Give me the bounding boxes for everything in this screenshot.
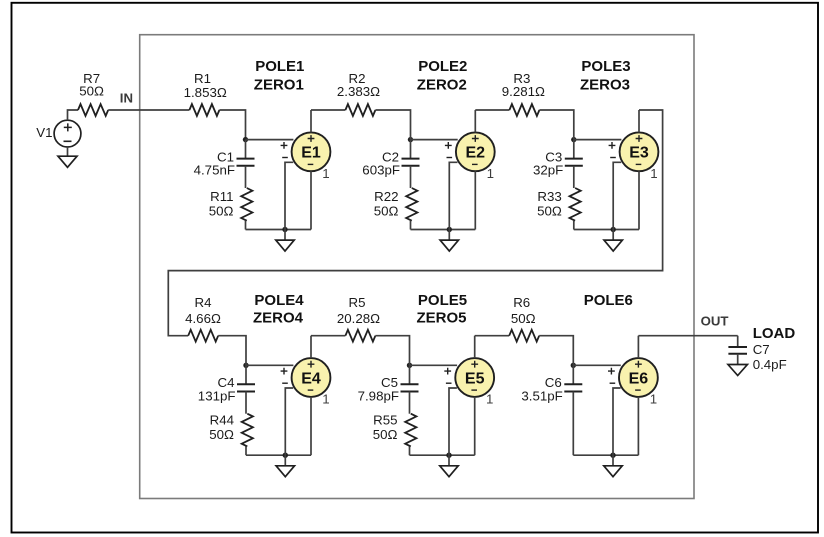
svg-text:50Ω: 50Ω — [374, 204, 399, 219]
E5 control - sign — [446, 382, 452, 384]
ground stage 4 — [276, 455, 294, 477]
label R5 value — [337, 311, 380, 326]
label E4 gain 1 — [322, 392, 329, 407]
E4 control + sign — [281, 368, 288, 375]
wire R3 to node — [539, 110, 573, 140]
svg-text:R6: R6 — [513, 295, 530, 310]
svg-text:R44: R44 — [210, 413, 234, 428]
svg-text:POLE5: POLE5 — [418, 292, 467, 309]
node OUT — [701, 314, 729, 329]
label ZERO5 — [416, 309, 466, 326]
wire E6 to OUT and load — [638, 335, 737, 337]
wire E6 control - to ground rail — [613, 388, 621, 455]
wire R4 to node 4 — [218, 336, 246, 366]
svg-text:E6: E6 — [629, 370, 649, 387]
label R5 — [349, 295, 366, 310]
wire E to R5 — [311, 335, 345, 337]
label R11 — [210, 189, 233, 204]
svg-text:POLE2: POLE2 — [418, 58, 467, 75]
svg-text:ZERO3: ZERO3 — [580, 77, 630, 94]
ground stage 2 — [440, 230, 458, 252]
wire E5 output top — [474, 336, 476, 358]
filter network boundary box — [140, 35, 694, 499]
E1 control - sign — [282, 157, 288, 159]
svg-text:603pF: 603pF — [362, 162, 400, 177]
wire V1 to R7 — [68, 110, 79, 120]
svg-text:50Ω: 50Ω — [373, 427, 398, 442]
E1 control + sign — [281, 142, 288, 149]
resistor R44 — [242, 414, 253, 456]
svg-text:ZERO5: ZERO5 — [416, 309, 466, 326]
label R1 — [194, 71, 211, 86]
svg-text:POLE3: POLE3 — [581, 58, 630, 75]
E2 control - sign — [447, 157, 453, 159]
label POLE4 — [254, 292, 304, 309]
resistor R5 — [345, 330, 375, 342]
capacitor C7 — [728, 336, 747, 354]
label ZERO3 — [580, 77, 630, 94]
label E5 gain 1 — [486, 392, 493, 407]
svg-text:C7: C7 — [753, 342, 770, 357]
svg-text:9.281Ω: 9.281Ω — [502, 84, 545, 99]
wire E to R6 — [475, 335, 510, 337]
svg-text:R4: R4 — [195, 295, 212, 310]
wire E1 output top — [310, 110, 312, 132]
E6 control - sign — [610, 382, 616, 384]
label POLE1 — [255, 58, 304, 75]
ground below V1 — [58, 147, 77, 167]
label R44 value 50ohm — [209, 427, 234, 442]
resistor R55 — [405, 414, 416, 456]
label R3 value — [502, 84, 545, 99]
resistor R1 — [189, 104, 219, 116]
svg-text:7.98pF: 7.98pF — [358, 388, 399, 403]
wire E4 control - to ground rail — [285, 388, 293, 455]
svg-text:1: 1 — [650, 166, 657, 181]
ground rail junction stage 1 — [282, 227, 287, 232]
wire E1 output bottom — [310, 171, 312, 229]
resistor R3 — [509, 104, 539, 116]
label C4 — [218, 375, 235, 390]
svg-text:4.75nF: 4.75nF — [194, 162, 235, 177]
svg-text:20.28Ω: 20.28Ω — [337, 311, 380, 326]
svg-text:V1: V1 — [36, 125, 52, 140]
wire node 6 to E6 control + — [573, 364, 621, 366]
resistor R7 — [78, 104, 108, 116]
node 4 junction — [243, 363, 248, 368]
ground rail junction stage 2 — [447, 227, 452, 232]
node 1 junction — [243, 137, 248, 142]
label C1 value 4.75nF — [194, 162, 235, 177]
wire E2 output top — [474, 110, 476, 132]
label R1 value 1.853ohm — [184, 85, 227, 100]
wire E5 output bottom — [474, 397, 476, 455]
label C5 — [381, 375, 398, 390]
wire E6 output bottom — [637, 397, 639, 455]
E2 control + sign — [445, 142, 452, 149]
wire E3 output top — [638, 110, 640, 132]
wire E2 control - to ground rail — [449, 162, 457, 229]
label E3 gain 1 — [650, 166, 657, 181]
ground rail stage 1 — [246, 229, 312, 231]
svg-text:50Ω: 50Ω — [511, 311, 536, 326]
label R33 value 50ohm — [537, 204, 562, 219]
label R11 value 50ohm — [209, 204, 234, 219]
svg-text:R5: R5 — [349, 295, 366, 310]
label C1 — [217, 149, 234, 164]
label R6 — [513, 295, 530, 310]
label R55 — [373, 413, 397, 428]
E3 control - sign — [610, 157, 616, 159]
svg-text:LOAD: LOAD — [753, 325, 796, 342]
label R44 — [210, 413, 234, 428]
wire node 4 to E4 control + — [246, 364, 293, 366]
label C4 value 131pF — [198, 388, 236, 403]
ground rail stage 5 — [410, 454, 475, 456]
label POLE3 — [581, 58, 630, 75]
ground rail junction stage 5 — [446, 453, 451, 458]
ground stage 5 — [440, 455, 458, 477]
svg-text:E5: E5 — [465, 370, 485, 387]
label ZERO1 — [254, 77, 304, 94]
wire E1 control - to ground rail — [285, 162, 293, 229]
wire node 3 to E3 control + — [574, 139, 622, 141]
svg-text:50Ω: 50Ω — [537, 204, 562, 219]
ground rail junction stage 4 — [283, 453, 288, 458]
resistor R6 — [509, 330, 539, 342]
svg-text:1: 1 — [322, 166, 329, 181]
ground rail stage 3 — [574, 229, 639, 231]
resistor R4 — [188, 330, 218, 342]
label C6 value 3.51pF — [521, 388, 562, 403]
dependent source E3 — [620, 132, 659, 171]
ground rail stage 4 — [246, 454, 311, 456]
capacitor C3 — [565, 140, 583, 188]
wire E to R3 — [475, 109, 509, 111]
ground stage 6 — [604, 455, 622, 477]
label E6 gain 1 — [650, 392, 657, 407]
E4 control - sign — [282, 382, 288, 384]
label R7 — [83, 71, 100, 86]
label E2 gain 1 — [487, 166, 494, 181]
label ZERO2 — [417, 77, 467, 94]
resistor R22 — [406, 188, 417, 230]
label R22 — [374, 189, 398, 204]
capacitor C4 — [237, 365, 255, 413]
svg-text:OUT: OUT — [701, 314, 729, 329]
svg-text:131pF: 131pF — [198, 388, 236, 403]
wire E3 output to second row feed — [168, 110, 662, 336]
label R55 value 50ohm — [373, 427, 398, 442]
svg-text:E2: E2 — [466, 145, 486, 162]
svg-text:POLE4: POLE4 — [254, 292, 304, 309]
resistor R33 — [570, 188, 581, 230]
capacitor C2 — [402, 140, 420, 188]
resistor R2 — [345, 104, 375, 116]
label R4 — [195, 295, 212, 310]
svg-text:1: 1 — [322, 392, 329, 407]
wire R2 to node — [375, 110, 410, 140]
resistor R11 — [241, 188, 252, 230]
label R3 — [513, 71, 530, 86]
label C2 value 603pF — [362, 162, 400, 177]
svg-text:E4: E4 — [301, 370, 321, 387]
wire E4 output top — [310, 336, 312, 358]
wire R1 to node 1 — [219, 110, 245, 140]
wire E3 control - to ground rail — [613, 162, 621, 229]
svg-text:2.383Ω: 2.383Ω — [337, 84, 380, 99]
label R7 value 50ohm — [79, 83, 104, 98]
svg-text:R33: R33 — [537, 189, 561, 204]
voltage source V1 — [54, 120, 81, 147]
svg-text:E3: E3 — [629, 145, 649, 162]
svg-text:1.853Ω: 1.853Ω — [184, 85, 227, 100]
svg-text:0.4pF: 0.4pF — [753, 357, 787, 372]
label E1 gain 1 — [322, 166, 329, 181]
svg-text:R55: R55 — [373, 413, 397, 428]
svg-text:POLE1: POLE1 — [255, 58, 304, 75]
svg-text:50Ω: 50Ω — [79, 83, 104, 98]
ground rail junction stage 3 — [611, 227, 616, 232]
label POLE6 — [584, 292, 633, 309]
node IN — [120, 90, 133, 105]
wire E5 control - to ground rail — [449, 388, 457, 455]
label C3 — [545, 149, 562, 164]
svg-text:IN: IN — [120, 90, 133, 105]
label C2 — [382, 149, 399, 164]
dependent source E5 — [455, 358, 494, 397]
label C7 — [753, 342, 770, 357]
wire node 5 to E5 control + — [410, 364, 458, 366]
wire R6 to node — [539, 336, 573, 366]
label R4 value 4.66ohm — [185, 311, 221, 326]
svg-text:1: 1 — [486, 392, 493, 407]
wire E3 output bottom — [638, 171, 640, 229]
wire E to R2 — [311, 109, 345, 111]
svg-text:32pF: 32pF — [533, 162, 563, 177]
label R2 value — [337, 84, 380, 99]
label R22 value 50ohm — [374, 204, 399, 219]
ground rail junction stage 6 — [610, 453, 615, 458]
dependent source E2 — [456, 132, 495, 171]
wire R5 to node — [375, 336, 409, 366]
node 5 junction — [407, 363, 412, 368]
capacitor C1 — [237, 140, 255, 188]
wire E2 output bottom — [474, 171, 476, 229]
label C5 value 7.98pF — [358, 388, 399, 403]
dependent source E6 — [619, 358, 658, 397]
svg-text:R22: R22 — [374, 189, 398, 204]
ground stage 1 — [276, 230, 294, 252]
label R6 value — [511, 311, 536, 326]
label C3 value 32pF — [533, 162, 563, 177]
label C7 value 0.4pF — [753, 357, 787, 372]
E6 control + sign — [608, 368, 615, 375]
ground below C7 — [728, 354, 747, 376]
label V1 — [36, 125, 52, 140]
svg-text:ZERO2: ZERO2 — [417, 77, 467, 94]
svg-text:4.66Ω: 4.66Ω — [185, 311, 221, 326]
wire E6 output top — [637, 336, 639, 358]
ground rail stage 6 — [573, 454, 638, 456]
label ZERO4 — [253, 309, 304, 326]
node 3 junction — [571, 137, 576, 142]
label R2 — [349, 71, 366, 86]
wire R7 to R1 through IN — [108, 109, 189, 111]
svg-text:1: 1 — [650, 392, 657, 407]
capacitor C5 — [401, 365, 419, 413]
E5 control + sign — [444, 368, 451, 375]
label POLE2 — [418, 58, 467, 75]
svg-text:50Ω: 50Ω — [209, 427, 234, 442]
E3 control + sign — [609, 142, 616, 149]
svg-text:ZERO1: ZERO1 — [254, 77, 304, 94]
wire E4 output bottom — [310, 397, 312, 455]
wire node 2 to E2 control + — [411, 139, 458, 141]
node 6 junction — [571, 363, 576, 368]
svg-text:ZERO4: ZERO4 — [253, 309, 304, 326]
svg-text:R1: R1 — [194, 71, 211, 86]
svg-text:50Ω: 50Ω — [209, 204, 234, 219]
label LOAD — [753, 325, 796, 342]
wire node 1 to E1 control + — [246, 139, 294, 141]
svg-text:1: 1 — [487, 166, 494, 181]
svg-text:3.51pF: 3.51pF — [521, 388, 562, 403]
capacitor C6 — [564, 365, 582, 455]
svg-text:E1: E1 — [301, 145, 321, 162]
svg-text:POLE6: POLE6 — [584, 292, 633, 309]
label C6 — [545, 375, 562, 390]
dependent source E4 — [292, 358, 331, 397]
svg-text:R11: R11 — [210, 189, 233, 204]
ground rail stage 2 — [411, 229, 476, 231]
ground stage 3 — [604, 230, 622, 252]
node 2 junction — [408, 137, 413, 142]
label R33 — [537, 189, 561, 204]
label POLE5 — [418, 292, 467, 309]
dependent source E1 — [292, 132, 331, 171]
